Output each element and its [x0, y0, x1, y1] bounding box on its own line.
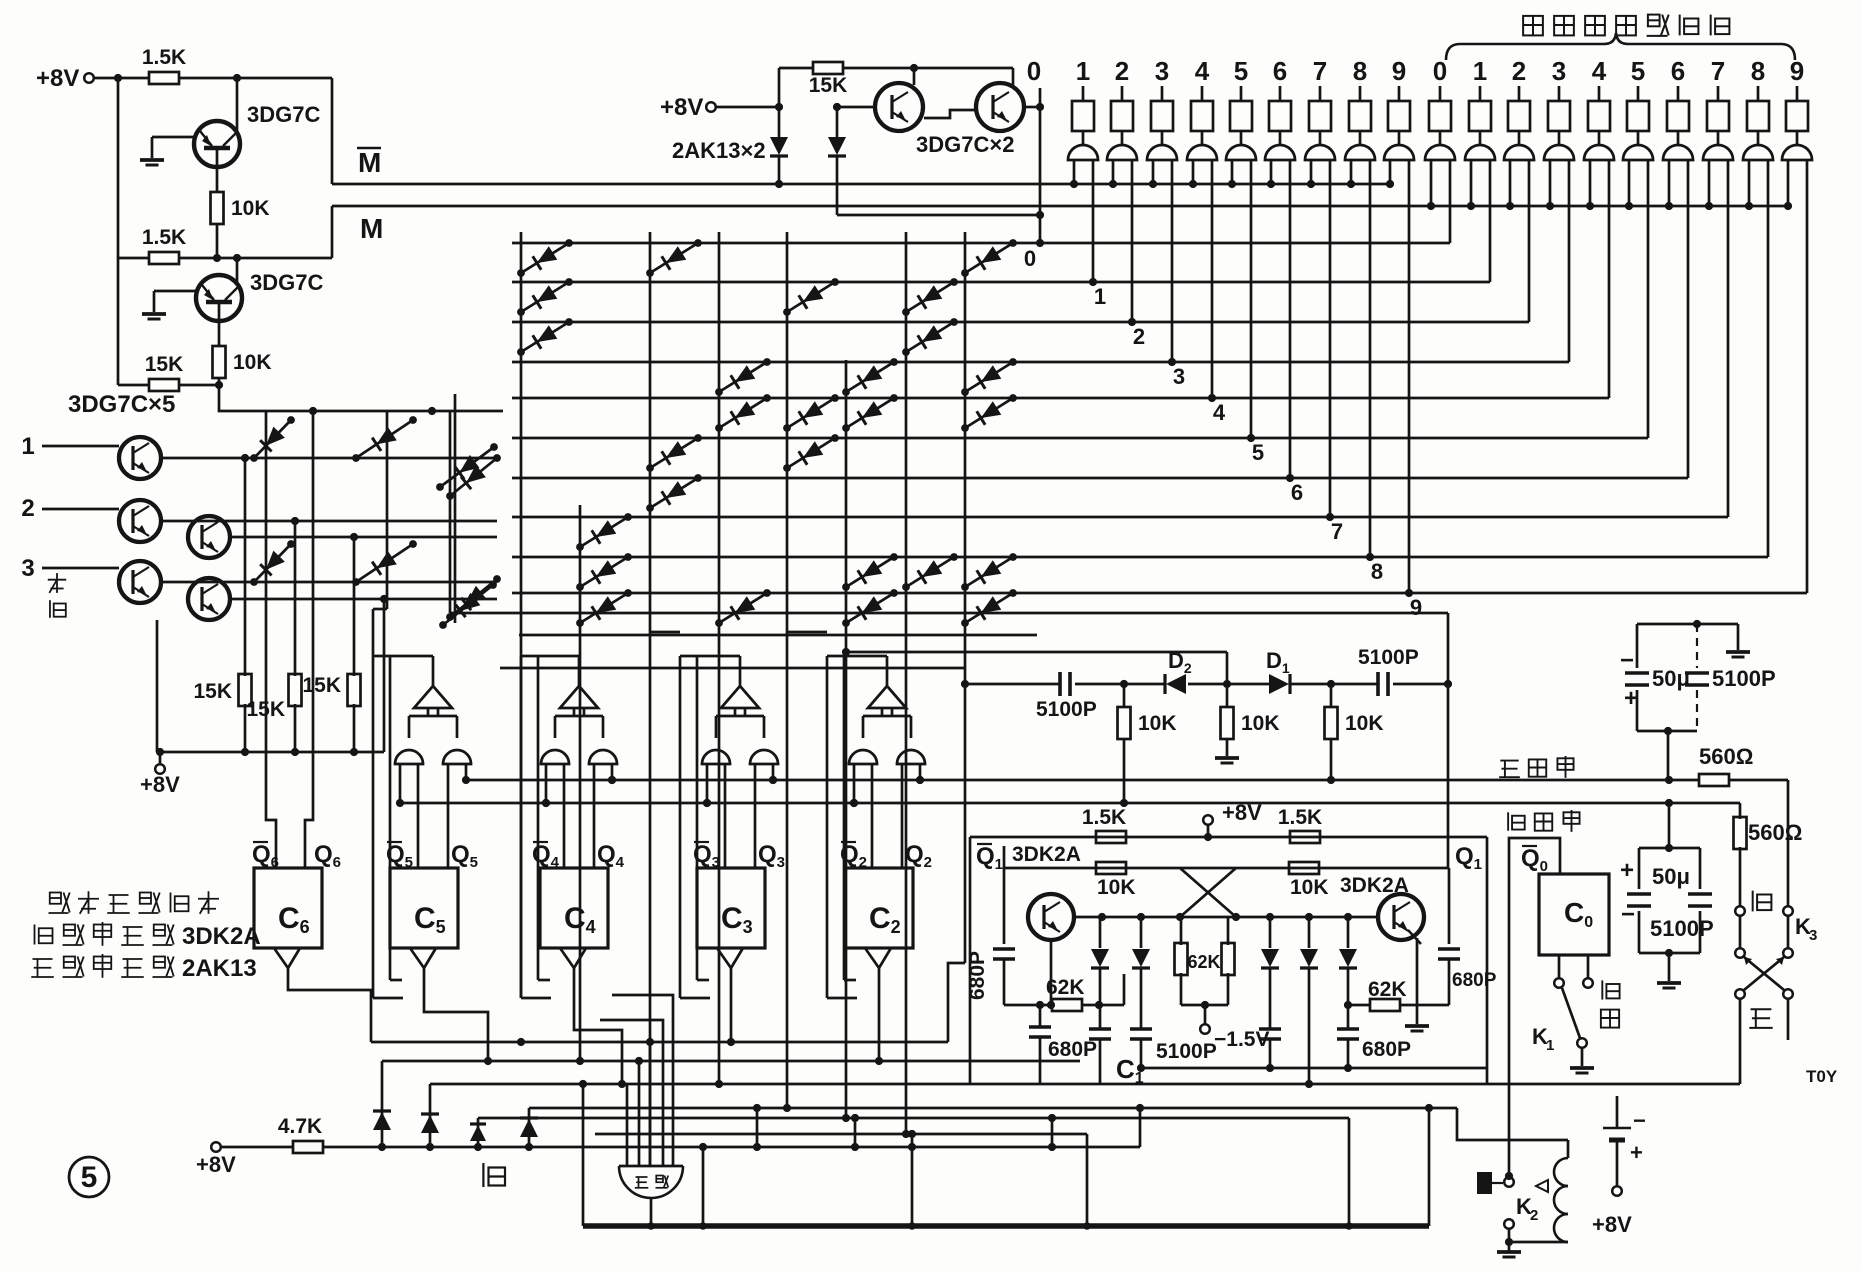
net matrix lower b — [519, 634, 1037, 637]
diode matrix col787 row1 2AK13 — [787, 282, 835, 312]
wire — [1457, 1108, 1568, 1140]
svg-text:3DG7C: 3DG7C — [250, 270, 323, 295]
svg-text:10K: 10K — [231, 197, 270, 220]
wire emitter V10 — [1050, 940, 1053, 1005]
wire — [582, 1084, 585, 1226]
wire — [1728, 779, 1788, 782]
wire — [1668, 803, 1671, 848]
resistor R 1.5K — [1290, 831, 1320, 843]
wire Q6 column — [305, 411, 313, 868]
wire — [1012, 68, 1015, 87]
net +8V rail left — [157, 751, 384, 754]
wire collector V7 — [230, 536, 497, 539]
inverter tree at x887 — [868, 686, 906, 708]
diode matrix col787 row5 2AK13 — [787, 438, 835, 468]
wire gate legs — [545, 764, 548, 803]
wire mini column x387 — [386, 411, 389, 609]
wire bracket jog C2 — [787, 631, 827, 634]
transistor V7 3DG7C — [188, 516, 230, 558]
wire C6 output notch — [274, 948, 300, 968]
svg-text:7: 7 — [1313, 56, 1327, 86]
wire — [1508, 1229, 1511, 1252]
svg-text:2: 2 — [21, 495, 34, 522]
node +8V terminal — [1203, 815, 1213, 825]
svg-text:8: 8 — [1371, 559, 1383, 584]
diode VD 2AK13 — [1347, 917, 1350, 948]
label shi-wei (tens digit) — [48, 579, 66, 581]
net row 8 — [512, 556, 1768, 559]
net row 7 — [512, 516, 1728, 519]
label jishu (count) — [1601, 980, 1603, 999]
net +8V rail flip-flop — [970, 836, 1487, 839]
diode mini matrix 2AK13 — [356, 544, 413, 582]
resistor R5 15K — [149, 379, 179, 391]
wire C5 output notch — [410, 948, 436, 968]
wire — [1181, 1004, 1228, 1007]
transistor V2 3DG7C — [196, 275, 242, 321]
diode matrix col787 row4 2AK13 — [787, 398, 835, 428]
svg-text:1: 1 — [1546, 1037, 1554, 1054]
wire — [218, 321, 221, 347]
brace units-digit group — [1446, 33, 1795, 60]
label liang-wei-shu-zhong-de-ge-wei — [1523, 16, 1543, 36]
wire — [118, 384, 150, 387]
diode mini matrix 2AK13 — [254, 420, 291, 458]
svg-text:680P: 680P — [1048, 1038, 1097, 1061]
svg-text:3: 3 — [1173, 364, 1185, 389]
net bundle E — [478, 1117, 1349, 1120]
counter block C3 — [697, 868, 765, 948]
wire C5 out — [424, 968, 488, 1061]
diode VD 2AK13 riser — [528, 1108, 531, 1147]
diode VD 2AK13 riser — [477, 1118, 480, 1147]
wire collector V6 — [161, 520, 497, 523]
wire — [94, 77, 150, 80]
wire — [1393, 683, 1448, 686]
svg-text:50μ: 50μ — [1652, 666, 1690, 691]
switch K2 pushbutton — [1477, 1172, 1492, 1194]
wire C4 output notch — [560, 948, 586, 968]
net matrix lower d — [500, 667, 965, 670]
ground — [1668, 953, 1671, 981]
capacitor unit 50u/5100P top — [1637, 623, 1697, 626]
wire C2 output notch — [865, 948, 891, 968]
net row 1 — [512, 281, 1490, 284]
nand gate — [849, 750, 877, 764]
wire — [218, 377, 221, 385]
wire — [1291, 683, 1378, 686]
wire — [702, 1147, 705, 1226]
svg-text:1: 1 — [1076, 56, 1090, 86]
svg-text:10K: 10K — [1241, 712, 1280, 735]
diode matrix col965 row9 2AK13 — [965, 593, 1013, 623]
svg-text:5: 5 — [1234, 56, 1248, 86]
battery GB — [1603, 1127, 1631, 1129]
svg-text:2: 2 — [1530, 1207, 1538, 1224]
svg-text:T0Y: T0Y — [1806, 1067, 1838, 1086]
resistor R 1.5K — [1096, 831, 1126, 843]
svg-text:9: 9 — [1392, 56, 1406, 86]
wire C4 out — [574, 968, 622, 1084]
net bundle B — [382, 1060, 1080, 1063]
wire C0 pins — [1558, 955, 1561, 978]
diode matrix col846 row3 2AK13 — [846, 362, 894, 392]
svg-text:2: 2 — [1115, 56, 1129, 86]
svg-text:4: 4 — [1213, 400, 1226, 425]
resistor R4 10K — [213, 346, 226, 378]
svg-text:1: 1 — [1473, 56, 1487, 86]
resistor R 560ohm vertical — [1734, 817, 1747, 849]
wire coupling V3-V4 — [924, 110, 977, 118]
wire — [221, 1146, 294, 1149]
wire — [1787, 999, 1790, 1040]
diode VD 2AK13 — [1099, 917, 1102, 948]
svg-text:4: 4 — [1195, 56, 1210, 86]
svg-text:62K: 62K — [1046, 976, 1085, 999]
net collector line — [1074, 916, 1378, 919]
ground — [1697, 623, 1738, 626]
gate jia-kou (add gate) — [619, 1165, 683, 1168]
capacitor C 5100P — [1058, 672, 1062, 696]
resistor R 10K — [1330, 684, 1333, 706]
svg-text:7: 7 — [1331, 519, 1343, 544]
svg-text:680P: 680P — [966, 951, 989, 1000]
svg-text:4: 4 — [1592, 56, 1607, 86]
transistor V1 3DG7C — [194, 121, 240, 167]
capacitor C 680P left — [1003, 868, 1006, 944]
svg-text:M: M — [358, 147, 381, 178]
svg-text:5100P: 5100P — [1712, 666, 1776, 691]
diode matrix col650 row0 2AK13 — [650, 243, 698, 273]
wire — [1003, 846, 1006, 868]
svg-text:15K: 15K — [145, 353, 184, 376]
resistor R 4.7K — [293, 1141, 323, 1153]
wire — [118, 257, 150, 260]
resistor R7 15K — [244, 458, 247, 676]
svg-text:680P: 680P — [1362, 1038, 1411, 1061]
net matrix lower a — [450, 612, 1448, 615]
svg-text:2: 2 — [1133, 324, 1145, 349]
wire bracket C3 — [679, 656, 682, 998]
diode matrix col965 row0 2AK13 — [965, 243, 1013, 273]
nand gate — [702, 750, 730, 764]
net bundle D — [529, 1107, 1457, 1110]
label note line1: unmarked types — [50, 893, 61, 904]
resistor R 62K right — [1348, 1004, 1371, 1007]
wire — [1509, 1241, 1568, 1244]
switch K1 — [1554, 978, 1564, 988]
wire C3 out — [730, 968, 733, 1042]
counter block C4 — [540, 868, 608, 948]
wire — [1024, 106, 1040, 109]
diode matrix col650 row6 2AK13 — [650, 478, 698, 508]
diode VD 2AK13 riser — [429, 1084, 432, 1147]
wire — [778, 68, 781, 107]
svg-text:0: 0 — [1024, 246, 1036, 271]
diode matrix col965 row3 2AK13 — [965, 362, 1013, 392]
resistor R 62K — [1227, 917, 1230, 945]
wire base V1 — [152, 136, 196, 139]
svg-text:680P: 680P — [1452, 970, 1497, 991]
wire gate inputs — [626, 1084, 629, 1166]
net bundle F — [595, 1133, 1087, 1136]
label note line3: diodes 2AK13 — [33, 958, 53, 960]
net M-bar — [331, 78, 334, 184]
diode mini matrix 2AK13 — [254, 544, 291, 582]
svg-text:6: 6 — [1671, 56, 1685, 86]
wire — [219, 385, 503, 411]
wire — [1428, 1108, 1431, 1226]
svg-text:5100P: 5100P — [1650, 916, 1714, 941]
wire bracket inner C3 — [696, 656, 699, 980]
svg-text:1.5K: 1.5K — [1278, 806, 1322, 829]
diode matrix col906 row2 2AK13 — [906, 322, 954, 352]
diode VD 2AK13 — [1308, 917, 1311, 948]
node +8V terminal — [159, 752, 162, 764]
wire subtract to switch — [1739, 803, 1742, 819]
resistor R2 10K — [211, 192, 224, 224]
net C1 bottom — [1142, 1067, 1487, 1070]
wire — [1086, 1134, 1089, 1226]
svg-text:+: + — [1620, 857, 1634, 884]
capacitor unit 50u/5100P lower — [1639, 847, 1700, 850]
resistor R6 15K — [813, 62, 843, 74]
wire — [178, 77, 332, 80]
svg-text:1: 1 — [1094, 284, 1106, 309]
wire bracket inner C5 — [389, 656, 392, 980]
svg-text:9: 9 — [1410, 595, 1422, 620]
wire matrix column x580 — [579, 505, 582, 1061]
transistor V10 3DK2A — [1028, 894, 1074, 940]
wire matrix column x650 — [649, 232, 652, 1166]
wire — [1739, 999, 1742, 1084]
svg-text:10K: 10K — [1097, 876, 1136, 899]
resistor R9 15K — [353, 537, 356, 676]
diode matrix left edge b — [443, 585, 493, 625]
wire — [854, 1118, 857, 1147]
capacitor C 680P — [1089, 1027, 1111, 1031]
wire emitter V11 ground — [1416, 938, 1419, 1024]
wire cross-coupling — [1180, 868, 1236, 917]
figure number 5 — [69, 1157, 109, 1197]
diode matrix col906 row8 2AK13 — [906, 557, 954, 587]
wire base V3 — [837, 106, 876, 109]
diode matrix col719 row9 2AK13 — [719, 593, 767, 623]
diode matrix col580 row8 2AK13 — [580, 557, 628, 587]
diode matrix col965 row8 2AK13 — [965, 557, 1013, 587]
ground — [153, 291, 156, 312]
counter block C6 — [254, 868, 322, 948]
net row 5 — [512, 437, 1648, 440]
wire — [236, 258, 239, 284]
resistor R 62K — [1180, 917, 1183, 945]
wire emitter bank — [156, 620, 159, 752]
resistor R 10K — [1226, 652, 1229, 706]
diode matrix col965 row4 2AK13 — [965, 398, 1013, 428]
wire matrix left vertical — [454, 394, 457, 623]
svg-text:5: 5 — [1631, 56, 1645, 86]
svg-text:1: 1 — [21, 433, 34, 460]
svg-text:+8V: +8V — [1592, 1212, 1632, 1237]
wire bracket C2 — [826, 656, 829, 998]
wire — [1051, 1118, 1054, 1147]
wire — [911, 1134, 914, 1226]
label note line2: transistors 3DK2A — [34, 925, 36, 945]
capacitor C 5100P — [1130, 1027, 1152, 1031]
svg-text:7: 7 — [1711, 56, 1725, 86]
svg-text:62K: 62K — [1187, 952, 1220, 972]
svg-text:3DG7C×2: 3DG7C×2 — [916, 132, 1014, 157]
label jian (subtract) — [482, 1163, 484, 1187]
wire gate legs — [853, 764, 856, 803]
wire matrix column x965 — [964, 232, 967, 963]
svg-text:−: − — [1633, 1108, 1646, 1133]
diode matrix col521 row2 2AK13 — [521, 322, 569, 352]
svg-text:+8V: +8V — [196, 1152, 236, 1177]
diode VD 2AK13 riser — [381, 1061, 384, 1147]
transistor V11 3DK2A — [1378, 894, 1424, 940]
net M — [331, 206, 334, 258]
net row 0 — [512, 242, 1450, 245]
net base rail — [1004, 867, 1448, 870]
wire collector V8 — [161, 581, 497, 584]
wire bracket C4 — [520, 656, 523, 998]
resistor R1 1.5K — [149, 72, 179, 84]
wire net row9 to dividers — [965, 683, 1060, 686]
diode matrix col846 row9 2AK13 — [846, 593, 894, 623]
transistor V8 3DG7C — [119, 561, 161, 603]
svg-text:2AK13×2: 2AK13×2 — [672, 138, 766, 163]
transistor V9 3DG7C — [188, 578, 230, 620]
wire — [1075, 683, 1166, 686]
diode VD 2AK13 — [1140, 917, 1143, 948]
transistor V3 3DG7C — [875, 83, 923, 131]
svg-text:+8V: +8V — [140, 772, 180, 797]
svg-text:5100P: 5100P — [1036, 698, 1097, 721]
resistor R 10K — [1096, 862, 1126, 874]
switch K3 — [1735, 906, 1745, 916]
wire bracket inner C2 — [843, 656, 846, 980]
svg-text:2: 2 — [1512, 56, 1526, 86]
nand gate — [750, 750, 778, 764]
ground — [1497, 1250, 1521, 1254]
svg-text:15K: 15K — [193, 680, 232, 703]
wire — [117, 78, 120, 385]
wire matrix column x787 — [786, 232, 789, 1108]
wire matrix column x719 — [718, 232, 721, 1084]
net row 9 — [512, 592, 1807, 595]
svg-text:9: 9 — [1790, 56, 1804, 86]
svg-text:8: 8 — [1353, 56, 1367, 86]
net subtract line (jianfaxian) — [400, 802, 1740, 805]
transistor V4 3DG7C — [976, 83, 1024, 131]
transistor V6 3DG7C — [119, 500, 161, 542]
resistor R 10K — [1123, 684, 1126, 706]
wire matrix column x846 — [845, 360, 848, 1118]
diode VD2 2AK13 — [836, 107, 839, 137]
capacitor C 5100P — [1376, 672, 1380, 696]
diode VD 2AK13 — [1269, 917, 1272, 948]
diode matrix col650 row5 2AK13 — [650, 438, 698, 468]
wire C2 out — [878, 968, 881, 1061]
svg-text:3DG7C×5: 3DG7C×5 — [68, 391, 175, 418]
net ground bus bottom — [583, 1223, 1429, 1229]
svg-text:5100P: 5100P — [1358, 646, 1419, 669]
diode mini matrix 2AK13 — [450, 458, 497, 496]
diode matrix col846 row4 2AK13 — [846, 398, 894, 428]
nand gate — [589, 750, 617, 764]
diode matrix col521 row1 2AK13 — [521, 282, 569, 312]
wire column 965 jog to lower bundle — [948, 963, 965, 1042]
svg-text:−: − — [1620, 647, 1634, 674]
diode matrix col580 row9 2AK13 — [580, 593, 628, 623]
wire C3 output notch — [717, 948, 743, 968]
svg-text:M: M — [360, 213, 383, 244]
wire C6 out — [288, 968, 371, 1042]
svg-text:5: 5 — [81, 1161, 98, 1194]
diode matrix col906 row1 2AK13 — [906, 282, 954, 312]
capacitor C 680P — [1039, 1005, 1042, 1026]
svg-text:3: 3 — [1155, 56, 1169, 86]
svg-text:2AK13: 2AK13 — [182, 955, 257, 982]
wire — [779, 67, 814, 70]
net bundle A — [371, 1041, 948, 1044]
capacitor C 680P — [1337, 1027, 1359, 1031]
wire gate legs — [706, 764, 709, 803]
label jian (subtract) — [1752, 891, 1754, 912]
wire matrix column x521 — [520, 232, 523, 998]
svg-text:10K: 10K — [1290, 876, 1329, 899]
diode matrix col846 row8 2AK13 — [846, 557, 894, 587]
svg-text:1.5K: 1.5K — [142, 226, 186, 249]
inverter tree at x433 — [414, 686, 452, 708]
wire jog C5 bracket feed — [373, 608, 387, 611]
svg-text:10K: 10K — [1345, 712, 1384, 735]
resistor R 10K — [1289, 862, 1319, 874]
wire — [716, 106, 779, 109]
net row 2 — [512, 321, 1529, 324]
diode matrix col521 row0 2AK13 — [521, 243, 569, 273]
nand gate — [541, 750, 569, 764]
svg-text:10K: 10K — [233, 351, 272, 374]
svg-text:+: + — [1630, 1140, 1643, 1165]
svg-text:3: 3 — [1552, 56, 1566, 86]
nand gate — [443, 750, 471, 764]
svg-text:15K: 15K — [302, 674, 341, 697]
wire — [1188, 683, 1269, 686]
net add line (jiafaxian) — [466, 779, 1700, 782]
wire — [756, 1108, 759, 1147]
svg-text:3: 3 — [21, 555, 34, 582]
svg-text:50μ: 50μ — [1652, 864, 1690, 889]
wire mini column x450 — [449, 411, 452, 613]
wire — [1667, 731, 1670, 780]
wire — [383, 599, 386, 752]
net row 3 — [512, 361, 1569, 364]
wire bracket inner C4 — [537, 656, 540, 980]
wire base V2 — [154, 290, 198, 293]
net +8V bottom line — [322, 1146, 1140, 1149]
wire collector V5 — [161, 457, 497, 460]
inverter tree at x740 — [721, 686, 759, 708]
wire — [236, 78, 239, 133]
svg-text:8: 8 — [1751, 56, 1765, 86]
diode matrix col719 row4 2AK13 — [719, 398, 767, 428]
net matrix lower c — [846, 651, 1227, 654]
svg-text:3: 3 — [1809, 927, 1817, 944]
inverter tree at x579 — [560, 686, 598, 708]
diode mini matrix 2AK13 — [356, 420, 413, 458]
